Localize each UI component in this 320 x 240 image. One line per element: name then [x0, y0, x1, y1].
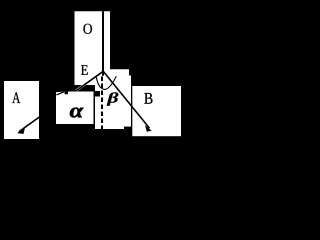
label beta [107, 92, 119, 105]
central white region (slit strip + area around E) [75, 11, 132, 129]
white notch above alpha box corner [56, 92, 65, 96]
screen box B [132, 86, 181, 136]
dashed normal line below E [101, 77, 103, 130]
arrowhead A [17, 126, 25, 133]
ray to A (lower-left) [19, 71, 103, 131]
arrowhead B [145, 125, 152, 132]
slit line O (solid vertical) [102, 11, 104, 76]
screen box A [4, 81, 39, 139]
label B [144, 93, 152, 104]
black blob right of band [94, 91, 101, 97]
ray stub in notch [57, 92, 65, 95]
label box alpha (covers ray) [56, 94, 94, 124]
label A [12, 92, 20, 103]
label O [83, 24, 92, 34]
label alpha [70, 108, 84, 118]
ray to B (lower-right) [103, 72, 149, 129]
raised top edge of alpha box (ragged scan) [68, 92, 94, 96]
label E [81, 65, 88, 74]
black step under column right corner [124, 127, 131, 129]
angle arc [96, 76, 116, 89]
white channel along ray through the band [76, 81, 89, 90]
